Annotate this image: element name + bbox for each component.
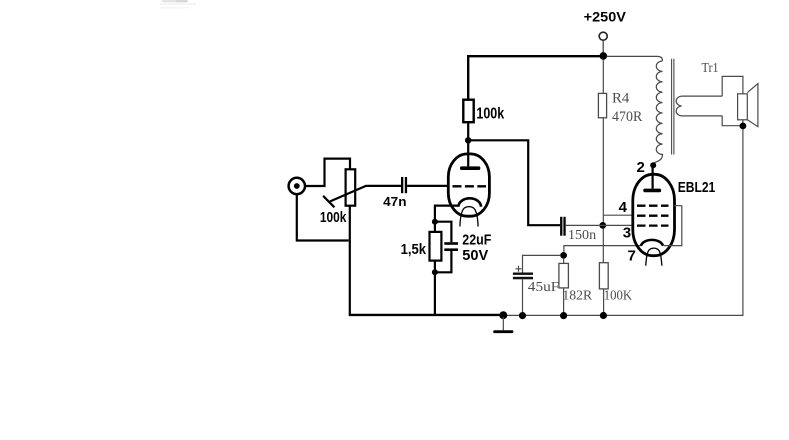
triode V1 grid dashes bbox=[453, 185, 487, 187]
capacitor 47n bbox=[401, 177, 403, 193]
junction speaker return bbox=[740, 123, 747, 130]
svg-text:2: 2 bbox=[637, 159, 645, 176]
plus sign 45uF bbox=[516, 266, 522, 272]
supply terminal bbox=[599, 32, 607, 40]
cropped text artifact top edge bbox=[162, 0, 188, 2]
junction transformer to anode EBL21 bbox=[650, 162, 656, 168]
triode V1 anode bar bbox=[460, 166, 480, 170]
svg-text:100k: 100k bbox=[320, 210, 347, 226]
capacitor 22uF branch wires bbox=[435, 222, 452, 243]
transformer Tr1 secondary winding bbox=[676, 96, 722, 116]
speaker top lead bbox=[722, 76, 743, 96]
resistor R4 470R bbox=[598, 93, 606, 117]
ground rail black segment bbox=[349, 314, 504, 316]
junction anode node bbox=[465, 137, 471, 143]
wire R4 down to pin4 tee bbox=[602, 118, 604, 263]
capacitor 22uF plates bbox=[444, 242, 458, 245]
svg-text:45uF: 45uF bbox=[528, 280, 560, 295]
pentode grid dashes control row bbox=[637, 224, 669, 226]
svg-text:100k: 100k bbox=[476, 106, 504, 123]
svg-text:7: 7 bbox=[628, 248, 636, 265]
triode V1 envelope bbox=[448, 154, 489, 216]
transformer core bbox=[672, 59, 674, 155]
wire 1,5k bottom to rail bbox=[434, 261, 436, 315]
wire plate resistor to anode V1 bbox=[467, 122, 469, 166]
speaker bottom lead bbox=[722, 116, 743, 126]
wire 182R to rail bbox=[563, 288, 565, 316]
wire jack return bbox=[297, 194, 349, 240]
ground symbol bbox=[502, 317, 504, 330]
pentode anode lead bbox=[651, 166, 653, 189]
ground rail gray segment and speaker riser bbox=[503, 129, 743, 315]
wire anode node to C 150n bbox=[468, 140, 560, 225]
wire bias node to 182R bbox=[563, 259, 565, 264]
wire 47n to grid V1 bbox=[407, 185, 448, 187]
wire pin 7 cathode to bias node bbox=[564, 246, 641, 252]
wire supply to transformer bbox=[607, 56, 663, 61]
wire 45uF to rail bbox=[522, 279, 524, 315]
resistor 100k plate bbox=[463, 100, 473, 123]
junction ground node bbox=[499, 311, 507, 319]
wire terminal stem bbox=[602, 40, 604, 52]
svg-text:3: 3 bbox=[623, 224, 631, 241]
svg-text:R4: R4 bbox=[612, 91, 630, 107]
svg-text:50V: 50V bbox=[462, 247, 488, 264]
wire 100K to rail bbox=[603, 289, 605, 316]
junction bias node bbox=[560, 252, 567, 259]
triode V1 heater bbox=[460, 207, 478, 227]
speaker cone bbox=[747, 84, 758, 127]
junction cathode top bbox=[432, 219, 438, 225]
speaker voice coil bbox=[738, 94, 748, 120]
capacitor 45uF plates bbox=[513, 273, 533, 275]
wire bias node to 45uF bbox=[523, 255, 561, 272]
pentode grid dashes screen row bbox=[637, 215, 669, 217]
wire pin 4 bbox=[603, 214, 633, 216]
wire supply to R4 bbox=[602, 60, 604, 94]
pentode grid dashes pin4 row (suppressor) bbox=[637, 205, 669, 207]
resistor 182R bbox=[559, 263, 569, 288]
junction supply node bbox=[600, 52, 608, 60]
wire cathode V1 to 1,5k bbox=[435, 206, 459, 232]
svg-text:+250V: +250V bbox=[584, 9, 627, 25]
svg-text:4: 4 bbox=[619, 199, 628, 216]
svg-text:EBL21: EBL21 bbox=[678, 180, 716, 196]
wire wiper to C 47n bbox=[366, 185, 402, 187]
svg-text:1,5k: 1,5k bbox=[401, 241, 427, 258]
input jack J1 bbox=[289, 178, 305, 194]
pentode heater bbox=[646, 248, 662, 266]
junction 100K rail bbox=[600, 312, 607, 319]
transformer Tr1 primary winding bbox=[653, 61, 662, 165]
svg-text:Tr1: Tr1 bbox=[702, 61, 719, 76]
junction 182R rail bbox=[560, 312, 567, 319]
resistor 1,5k bbox=[430, 232, 442, 261]
svg-text:100K: 100K bbox=[604, 289, 632, 304]
junction cathode bottom bbox=[432, 269, 438, 275]
resistor 100K grid leak bbox=[599, 263, 608, 289]
wire pin 3 from 150n bbox=[566, 224, 633, 226]
wire pot bottom to rail bbox=[349, 206, 351, 315]
wire +250V to plate resistor bbox=[468, 56, 603, 99]
pentode EBL21 envelope bbox=[633, 174, 675, 255]
svg-text:47n: 47n bbox=[383, 194, 406, 209]
potentiometer wiper arrow bbox=[330, 186, 366, 202]
capacitor 150n bbox=[560, 217, 562, 236]
junction 45uF rail bbox=[519, 312, 526, 319]
svg-text:22uF: 22uF bbox=[462, 232, 491, 249]
potentiometer 100k body bbox=[346, 169, 356, 205]
pentode anode bar bbox=[643, 189, 661, 193]
pentode cathode bbox=[641, 240, 663, 246]
junction grid node bbox=[599, 222, 606, 229]
svg-text:182R: 182R bbox=[562, 289, 592, 304]
suppressor to cathode loop bbox=[664, 206, 682, 246]
triode V1 cathode bbox=[458, 198, 481, 207]
svg-text:470R: 470R bbox=[612, 109, 643, 125]
wire jack to pot top bracket bbox=[305, 159, 350, 186]
svg-text:150n: 150n bbox=[568, 228, 596, 243]
